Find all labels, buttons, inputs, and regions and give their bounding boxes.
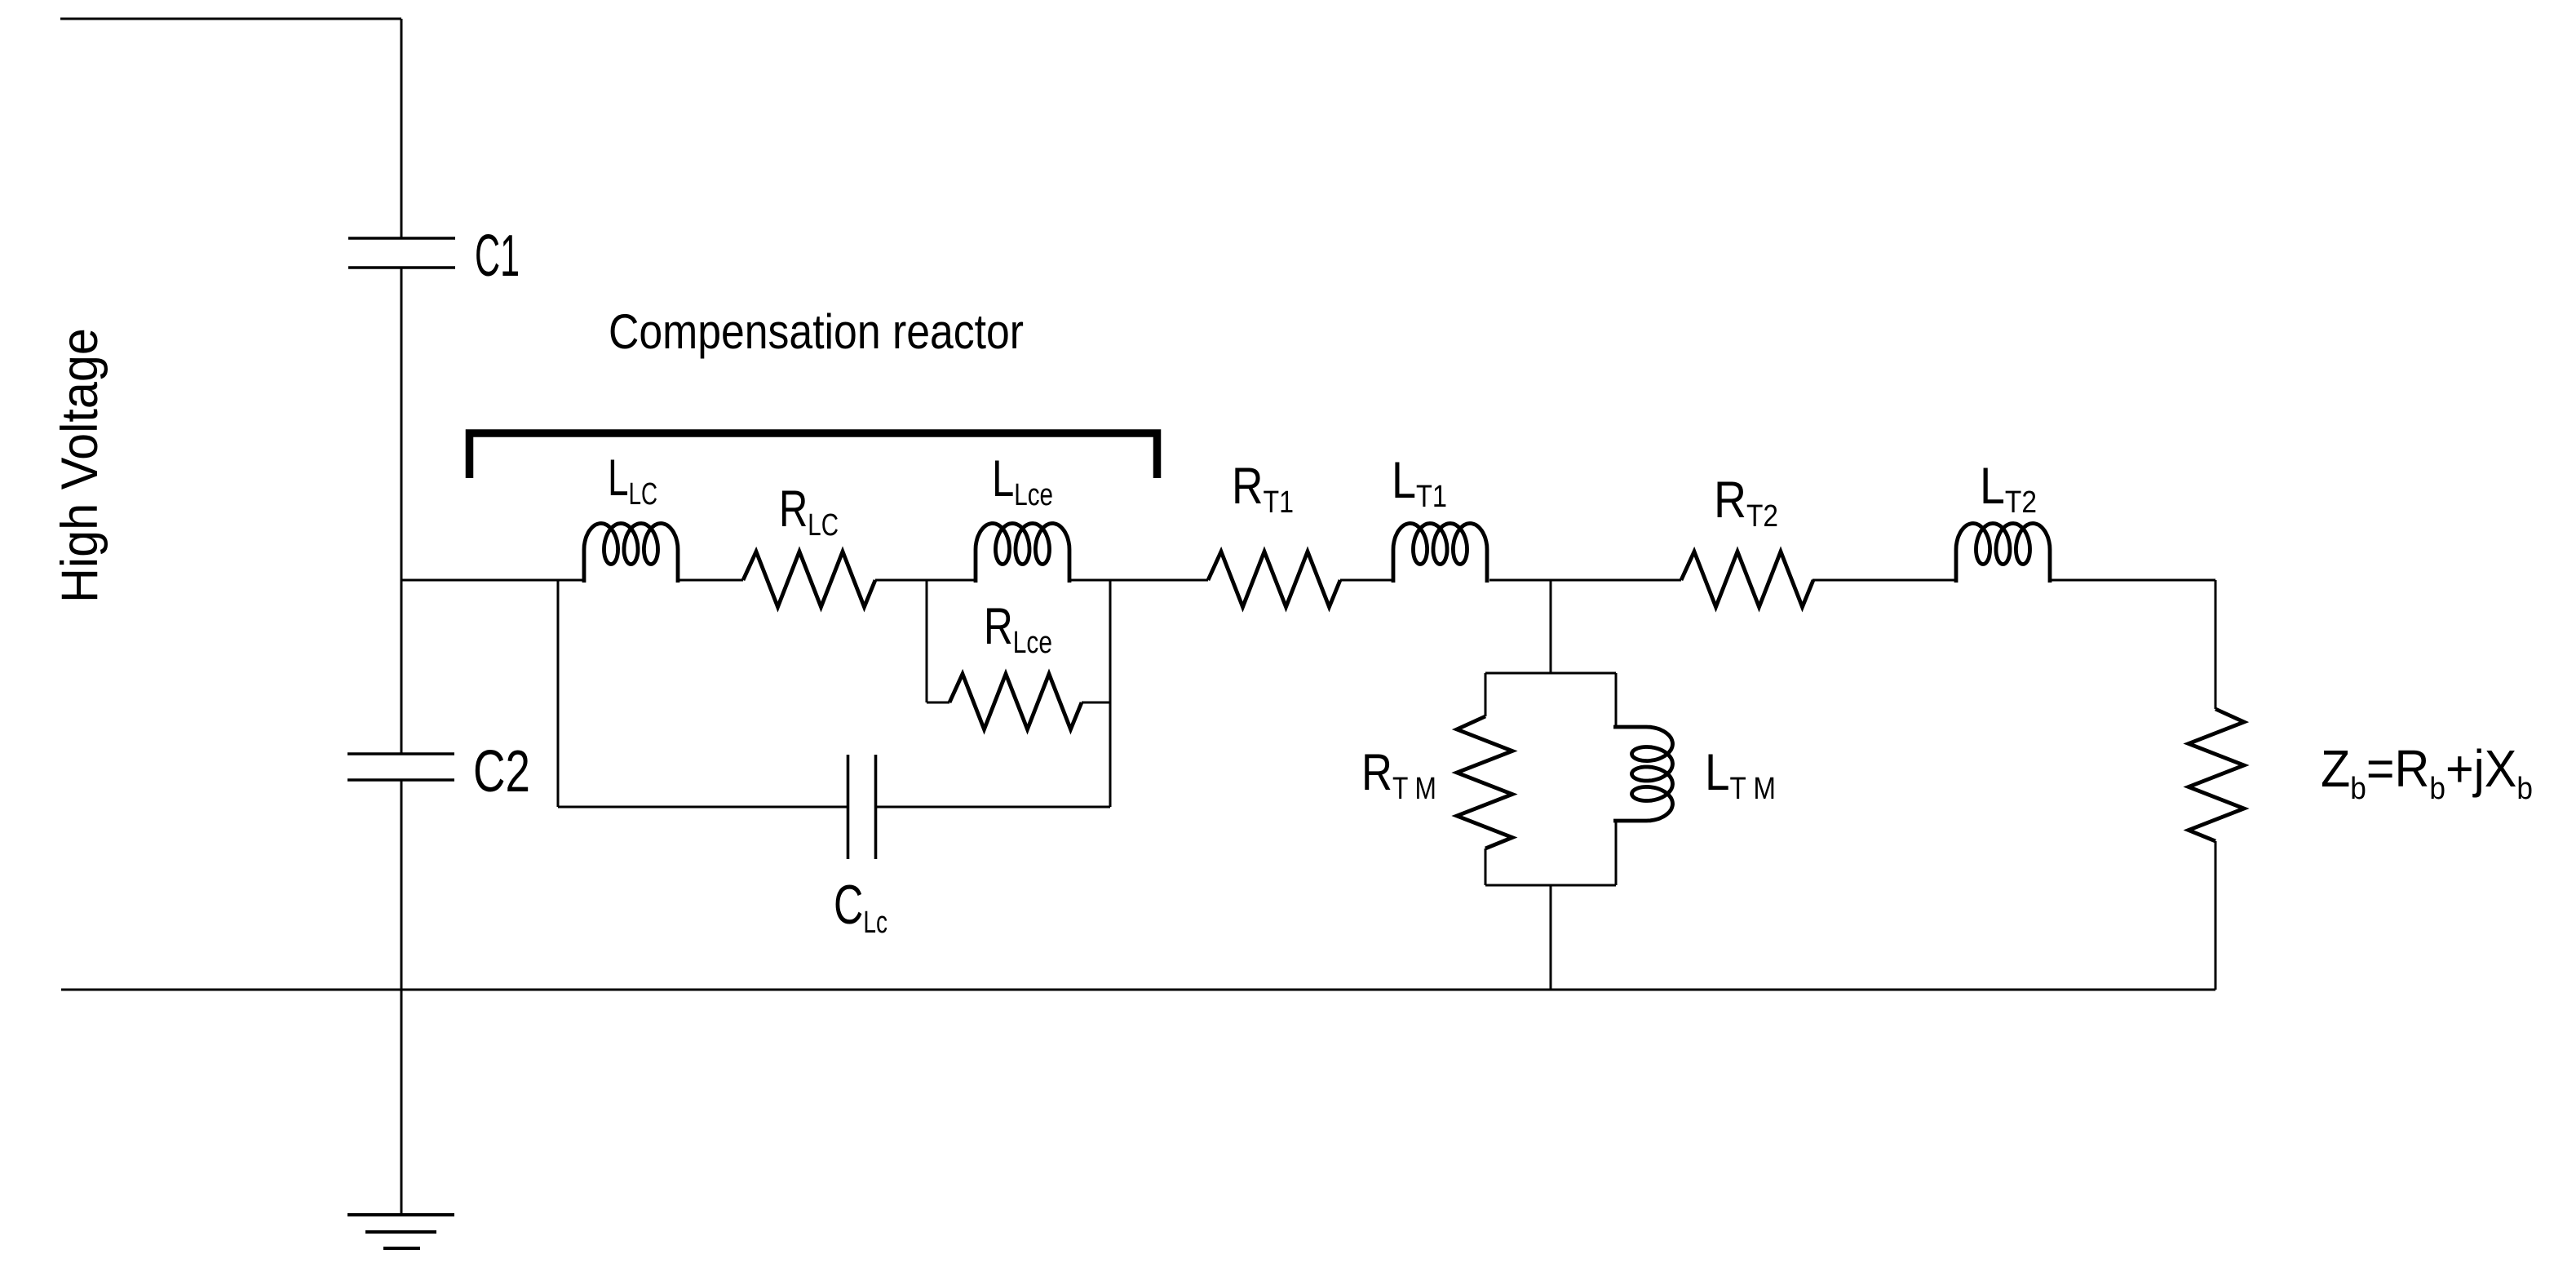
svg-text:High Voltage: High Voltage [51, 328, 108, 603]
resistor RTM [1457, 716, 1512, 848]
wire: parallel block right vertical [1109, 580, 1112, 807]
capacitor CLc [848, 755, 876, 859]
wire: main horizontal line [401, 579, 2215, 582]
capacitor C2 [347, 754, 454, 780]
wire: box top [1485, 672, 1616, 675]
wire: left vertical (HV column) [401, 19, 403, 1215]
wire: RLce leads [927, 702, 1110, 704]
wire: magnetising branch stub [1550, 580, 1552, 673]
resistor RT1 [1208, 552, 1340, 607]
wire: burden right vertical [2215, 580, 2217, 990]
svg-text:Compensation reactor: Compensation reactor [609, 304, 1024, 359]
wire: CLc branch bottom [558, 806, 1110, 809]
ground [347, 1215, 454, 1248]
wire: RLce branch left stub [926, 580, 928, 702]
resistor RT2 [1681, 552, 1813, 607]
capacitor C1 [348, 238, 455, 268]
wire: top feed [60, 18, 401, 20]
inductor LLC [584, 524, 678, 583]
wire: CLc branch left vertical [557, 580, 560, 807]
wire: RTM leads [1485, 673, 1487, 885]
brace: compensation reactor bracket [470, 433, 1157, 478]
wire: magnetising branch to rail [1550, 885, 1552, 990]
wire: bottom rail [61, 989, 2215, 991]
resistor RLC [743, 552, 875, 607]
inductor LTM [1613, 727, 1673, 821]
inductor LT2 [1956, 524, 2050, 583]
resistor Zb burden [2189, 709, 2244, 841]
resistor RLce [949, 674, 1082, 729]
wire: LTM leads [1615, 673, 1618, 885]
wire: box bottom [1485, 884, 1616, 887]
svg-text:C2: C2 [473, 739, 530, 804]
svg-text:C1: C1 [475, 224, 520, 289]
inductor LT1 [1393, 524, 1487, 583]
inductor LLce [976, 524, 1069, 583]
